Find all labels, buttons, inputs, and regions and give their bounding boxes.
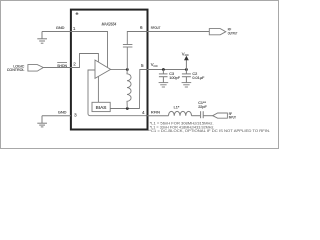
svg-text:SHDN: SHDN — [57, 63, 67, 68]
svg-text:+: + — [75, 12, 78, 18]
wire pin2 SHDN — [43, 67, 71, 69]
internal inductor coil — [127, 70, 131, 109]
wire bias to vcc rail — [110, 108, 140, 110]
internal GND wire pin1 to amp top — [71, 32, 108, 68]
wire pin6 RFOUT — [147, 31, 209, 33]
svg-text:100pF: 100pF — [169, 76, 180, 80]
junction node D — [126, 68, 129, 71]
svg-text:OUTPUT: OUTPUT — [228, 31, 238, 35]
connector logic control — [28, 65, 43, 72]
svg-text:**C1 = DC-BLOCK, OPTIONAL IF D: **C1 = DC-BLOCK, OPTIONAL IF DC IS NOT A… — [148, 128, 271, 133]
wire amp output — [111, 69, 128, 71]
capacitor C3 — [162, 70, 164, 74]
junction node B — [185, 68, 188, 71]
svg-text:6: 6 — [140, 25, 143, 30]
svg-text:CONTROL: CONTROL — [7, 68, 25, 72]
wire pin1 GND — [42, 31, 71, 33]
svg-text:22pF: 22pF — [198, 105, 207, 109]
svg-text:2: 2 — [73, 61, 76, 66]
svg-text:0.01µF: 0.01µF — [192, 76, 205, 80]
BIAS block — [92, 102, 110, 111]
wire pin5 VCC — [147, 69, 186, 71]
chip U1 MAX2634 outline — [71, 10, 148, 130]
internal capacitor — [126, 47, 128, 69]
svg-text:RFIN: RFIN — [151, 110, 160, 115]
connector RF output — [209, 29, 226, 35]
wire amp to bias — [97, 76, 99, 102]
internal RFIN wire — [88, 70, 147, 116]
junction node C — [126, 107, 129, 110]
wire L1 to C1 — [192, 115, 201, 117]
junction node A — [162, 68, 165, 71]
svg-text:4: 4 — [142, 110, 145, 115]
capacitor C1 series — [200, 111, 202, 118]
svg-text:3: 3 — [74, 112, 77, 117]
wire C1 to connector — [203, 115, 212, 117]
svg-text:MAX2634: MAX2634 — [102, 22, 117, 28]
svg-text:GND: GND — [56, 25, 65, 30]
op-amp triangle — [95, 60, 111, 78]
internal SHDN wire — [71, 54, 98, 68]
VCC supply arrow — [185, 60, 187, 70]
svg-text:5: 5 — [141, 63, 144, 68]
svg-text:GND: GND — [58, 109, 67, 114]
svg-text:BIAS: BIAS — [96, 105, 107, 110]
ground under C2 — [182, 82, 192, 84]
svg-text:1: 1 — [73, 26, 76, 31]
wire pin3 GND — [42, 115, 71, 117]
capacitor C2 — [185, 70, 187, 74]
internal VCC wire — [140, 70, 147, 109]
ground G3 — [41, 116, 43, 123]
svg-text:L1*: L1* — [174, 105, 180, 109]
svg-text:RFOUT: RFOUT — [151, 25, 161, 30]
svg-text:INPUT: INPUT — [229, 116, 237, 120]
ground G1 — [41, 32, 43, 39]
ground under C3 — [159, 82, 169, 84]
connector RF input — [213, 113, 228, 118]
wire pin4 RFIN — [147, 115, 169, 117]
inductor L1 — [169, 111, 192, 115]
border frame — [1, 1, 279, 149]
